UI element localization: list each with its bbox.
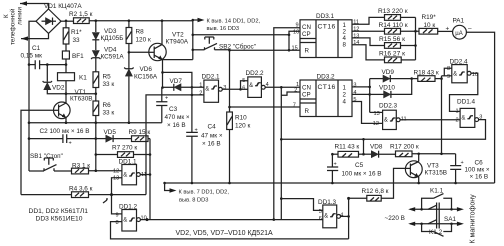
wire DD1.2 out row [141,219,323,221]
svg-text:R: R [305,108,310,115]
svg-text:~220 В: ~220 В [385,215,405,222]
svg-text:1: 1 [343,85,347,92]
arrow to telephone line a [20,1,27,5]
capacitor C3 [156,88,168,123]
svg-text:VD2, VD5, VD7–VD10 КД521А: VD2, VD5, VD7–VD10 КД521А [176,230,273,237]
svg-text:33 к: 33 к [103,81,115,88]
svg-text:телефонной: телефонной [9,8,17,45]
resistor R5 [93,72,99,88]
svg-text:120 к: 120 к [235,123,250,130]
resistor R9 [132,136,151,142]
svg-text:8: 8 [116,220,119,226]
wire DD3.1 out pin13 to R15 [352,38,385,46]
svg-text:K1.2: K1.2 [429,229,443,236]
svg-text:&: & [324,213,328,219]
resistor R2 [74,18,90,24]
svg-text:C6: C6 [475,160,484,167]
svg-text:3: 3 [479,114,482,120]
arrow to pin 14 DD1 DD2 pin 16 DD3 [193,19,199,21]
svg-text:11: 11 [353,20,359,26]
svg-text:&: & [249,83,253,89]
resistor R6 [93,101,99,171]
resistor R4 [21,192,146,198]
mains line 2 [410,223,461,225]
svg-text:КТ940А: КТ940А [166,39,189,46]
svg-text:10: 10 [472,72,478,78]
resistor R8 [126,21,149,53]
svg-text:2: 2 [199,90,202,96]
capacitor C5 [327,154,338,183]
gate DD1.4 [460,108,479,127]
svg-text:6: 6 [242,85,245,91]
svg-text:4: 4 [343,99,347,106]
gate DD2.4 [452,65,471,83]
svg-text:R14 110 к: R14 110 к [379,22,408,29]
svg-text:12: 12 [113,169,119,175]
svg-text:10 к: 10 к [424,22,436,29]
svg-text:R5: R5 [103,74,112,81]
svg-text:DD3 К561ИЕ10: DD3 К561ИЕ10 [36,216,83,223]
svg-text:10: 10 [141,215,147,221]
wire reset rail to DD3 [193,34,289,36]
svg-text:R8: R8 [136,29,145,36]
svg-text:R4 3,6 к: R4 3,6 к [69,186,93,193]
svg-text:3: 3 [353,82,356,88]
svg-text:VD3: VD3 [104,28,117,35]
svg-text:SB1 "Стоп": SB1 "Стоп" [30,153,63,160]
svg-text:4: 4 [353,90,356,96]
node VT1 emitter on rail [65,121,68,124]
wire CN9 column DD3.1 [274,28,300,220]
svg-text:&: & [453,72,457,78]
resistor R12 [349,195,382,201]
svg-text:VD4: VD4 [104,47,117,54]
svg-text:&: & [461,115,465,121]
wire emitter to SB2 column [163,59,193,61]
svg-text:C5: C5 [355,162,364,169]
svg-text:PA1: PA1 [453,18,465,25]
svg-text:R19*: R19* [422,14,437,21]
wire DD2.2 out column down [280,87,282,219]
wire bridge plus to R2 [61,20,74,22]
svg-text:12: 12 [373,121,379,127]
svg-text:K1.1: K1.1 [430,188,444,195]
diode VD3 [92,33,99,51]
zener diodes column VD9 VD10 [352,86,370,88]
svg-text:DD2.1: DD2.1 [202,74,221,81]
counter DD3.2 [300,80,352,117]
wire PA1 to right edge down [466,32,494,183]
wire DD2.4 inputs [444,68,452,76]
wire bridge minus down to SB1 [28,65,30,171]
svg-text:C1: C1 [32,45,41,52]
wire DD3.1 out pin12 to R14 [352,30,385,32]
svg-text:12: 12 [353,27,359,33]
diode VD9 [370,75,412,82]
svg-text:VD10: VD10 [379,85,395,92]
svg-text:R1*: R1* [71,29,82,36]
svg-text:DD2.3: DD2.3 [379,103,398,110]
wire R5 to R6 [95,88,97,102]
svg-text:6: 6 [319,216,322,222]
svg-text:120 к: 120 к [136,37,151,44]
svg-text:DD1.2: DD1.2 [119,203,138,210]
diode VD3 column [95,21,97,32]
svg-text:47 мк ×: 47 мк × [201,133,223,140]
svg-text:470 мк ×: 470 мк × [165,114,190,121]
node bridge plus / R1 top [65,20,68,23]
svg-text:11: 11 [141,172,147,178]
capacitor C2 [63,134,96,146]
svg-text:линии: линии [17,7,24,25]
relay contacts K1.2 [422,224,452,237]
svg-text:R6: R6 [103,102,112,109]
svg-text:R: R [305,48,310,55]
svg-text:DD2.2: DD2.2 [246,70,265,77]
resistor R17 [396,151,456,157]
counter DD3.1 [300,20,352,58]
wire VT2 emitter column [162,60,164,88]
svg-text:15: 15 [292,45,298,51]
svg-text:5: 5 [242,78,245,84]
diode VD10 [370,79,412,98]
svg-text:VD8: VD8 [370,144,383,151]
transistor VT2 [149,43,166,60]
wire common bottom rail [165,182,495,184]
svg-text:+: + [69,141,72,147]
svg-text:CT16: CT16 [318,24,336,31]
svg-text:R12 6,8 к: R12 6,8 к [362,188,389,195]
svg-text:100 мк × 16 В: 100 мк × 16 В [342,171,382,178]
node X [110,193,113,196]
capacitor C4 [186,128,198,184]
svg-text:КТ315В: КТ315В [425,170,448,177]
wire VT2 collector to rail [161,21,163,45]
wire R9 right down column [149,139,151,220]
wire DD3.2 pin5 to DD2.3 pin12 [352,102,383,124]
resistor R11 [332,151,371,157]
diode VD2 [43,65,66,94]
svg-text:CT16: CT16 [318,84,336,91]
wire DD2.3 out to DD1.4 pin2 [400,119,460,121]
svg-text:8: 8 [343,42,347,49]
transistor VT1 [54,94,71,123]
svg-text:выв. 16 DD3: выв. 16 DD3 [207,26,240,32]
svg-text:К магнитофону: К магнитофону [470,194,477,244]
svg-text:4: 4 [340,213,343,219]
svg-text:4: 4 [266,82,269,88]
wire DD2.3 pin13 [370,111,383,113]
svg-text:DD1.3: DD1.3 [318,199,337,206]
svg-text:13: 13 [113,176,119,182]
svg-text:R11 43 к: R11 43 к [335,144,360,151]
svg-text:2: 2 [294,88,297,94]
diode VD5 [96,135,132,142]
diode VD8 [371,151,395,158]
svg-text:&: & [123,218,127,224]
arrow to pin 7 DD1 DD2 pin 8 DD3 [165,183,170,191]
svg-text:КД105Б: КД105Б [101,35,124,42]
svg-text:× 16 В: × 16 В [202,141,221,148]
svg-text:VT3: VT3 [427,163,439,170]
wire VT1 base to left rail [21,110,54,194]
svg-text:10: 10 [293,30,299,36]
wire DD3.2 CP hook [281,92,300,95]
svg-text:R9 15 к: R9 15 к [129,129,151,136]
svg-text:R17 200 к: R17 200 к [390,144,419,151]
svg-text:DD1, DD2 К561ТЛ1: DD1, DD2 К561ТЛ1 [29,208,89,215]
gate DD1.3 [323,205,349,228]
svg-text:R15 56 к: R15 56 к [379,36,405,43]
arrow to telephone line b [21,36,28,40]
svg-text:+: + [165,96,168,102]
zener VD4 [91,51,100,72]
svg-text:K1: K1 [79,75,87,82]
svg-text:DD3.2: DD3.2 [317,74,336,81]
svg-text:CP: CP [302,91,311,98]
svg-text:13: 13 [353,33,359,39]
svg-text:VD5: VD5 [104,129,117,136]
svg-text:100 мк ×: 100 мк × [465,167,490,174]
gate DD1.2 [122,210,141,232]
resistor R16 [385,57,416,63]
resistor R13 [385,15,416,21]
svg-text:К выв. 14 DD1, DD2,: К выв. 14 DD1, DD2, [207,19,261,25]
mains line 1 [410,208,461,210]
svg-text:+: + [446,26,450,33]
svg-text:BF1: BF1 [72,53,84,60]
node VT1 collector / K1 bottom [65,92,68,95]
svg-text:8: 8 [447,66,450,72]
wire DD2.2 out to DD3.2 CN [265,86,300,88]
svg-text:–: – [468,25,472,32]
svg-text:R2 1,5 к: R2 1,5 к [69,11,93,18]
wire DD1.4 out down to long row [281,120,485,140]
wire telephone line a [20,4,49,10]
node C1 left [28,63,31,66]
svg-text:R10: R10 [235,115,247,122]
svg-text:× 16 В: × 16 В [167,122,186,129]
svg-text:C4: C4 [208,124,217,131]
svg-text:7: 7 [293,102,296,108]
gate DD1.1 [122,165,150,185]
svg-text:SB2 "Сброс": SB2 "Сброс" [219,43,256,51]
pushbutton SB2 [193,37,217,50]
wire SB2 reset column [192,20,194,60]
svg-text:VD2: VD2 [52,85,65,92]
wire VT3 base to R12 [381,168,405,198]
svg-text:&: & [205,87,209,93]
svg-text:&: & [384,118,388,124]
svg-text:R18 43 к: R18 43 к [414,70,439,77]
resistor R14 [385,28,420,34]
svg-text:DD3.1: DD3.1 [316,13,335,20]
svg-text:CP: CP [302,31,311,38]
resistor R3 [72,168,122,174]
wire collector to R5 R6 divider [66,93,96,95]
diode VD7 [163,84,204,91]
svg-text:VD1 КЦ407А: VD1 КЦ407А [44,3,82,10]
svg-text:0,15 мк: 0,15 мк [21,53,43,60]
node C1 right / K1 top [65,63,68,66]
svg-text:SA1: SA1 [444,216,457,223]
svg-text:9: 9 [116,213,119,219]
svg-text:1: 1 [456,109,459,115]
svg-text:33: 33 [73,37,81,44]
wire top supply rail [89,20,193,22]
svg-text:VD9: VD9 [382,69,395,76]
wire telephone line b [21,33,49,38]
capacitor C6 [450,154,464,183]
pushbutton SB1 [29,158,72,171]
gate DD2.2 [248,77,265,98]
wire SB2 right contact down [215,50,230,112]
wire DD1.2 pin9 [112,195,122,214]
wire DD1.2 pin8 to bottom loop [111,222,349,239]
resistor R19 [419,28,453,34]
svg-text:1: 1 [199,83,202,89]
svg-text:× 16 В: × 16 В [470,174,489,181]
svg-text:9: 9 [296,23,299,29]
svg-text:R16 27 к: R16 27 к [379,51,405,58]
svg-text:µA: µA [455,31,462,37]
svg-text:VD6: VD6 [140,66,153,73]
svg-text:5: 5 [319,209,322,215]
svg-text:VT2: VT2 [172,32,184,39]
svg-text:13: 13 [374,111,380,117]
svg-text:К выв. 7 DD1, DD2,: К выв. 7 DD1, DD2, [179,190,230,196]
svg-text:5: 5 [353,97,356,103]
wire node X up to DD2.1 pin2 [146,95,204,195]
svg-text:КС156А: КС156А [134,74,158,81]
svg-text:14: 14 [353,40,359,46]
resistor R18 [412,76,442,82]
svg-text:2: 2 [343,92,347,99]
wire DD2.4 out loop to DD1.4 pin1 [450,73,478,111]
wire DD3.1 out pin14 to R16 [352,45,385,60]
svg-text:DD2.4: DD2.4 [450,59,469,66]
svg-text:КТ630В: КТ630В [70,96,93,103]
capacitor C1 [29,60,66,69]
transistor VT3 [405,154,422,183]
resistor R10 [227,112,233,183]
svg-text:9: 9 [447,74,450,80]
wire DD1.1 pin13 to node X [112,178,122,195]
relay contacts K1.1 [422,194,452,209]
svg-text:&: & [123,173,127,179]
wire DD3.1 out pin11 to R13 [352,17,385,24]
svg-text:11: 11 [401,116,407,122]
svg-text:КС591А: КС591А [101,54,125,61]
resistor R15 [385,43,416,49]
svg-text:DD1.1: DD1.1 [119,159,138,166]
small mark near DD1.2 [103,199,108,203]
resistor R1 [63,21,69,51]
wire DD1.3 out up to R12 and down to loop [348,198,350,239]
svg-text:R3 1 к: R3 1 к [72,163,90,170]
wire summing column to R19 [415,17,417,60]
diode bridge VD1 [36,9,61,33]
wire branch to VD8 junction [363,139,365,154]
svg-text:2: 2 [456,117,459,123]
wire emitter branch to DD2.1 [163,72,192,132]
zener VD6 [124,51,133,123]
capacitor C2 row [29,138,63,140]
wire DD1.3 pin5 branch [281,199,323,211]
svg-text:C3: C3 [169,106,178,113]
svg-text:DD1.4: DD1.4 [457,99,476,106]
switch SA1 [428,203,439,229]
svg-text:R13 220 к: R13 220 к [378,8,408,15]
meter PA1 [453,25,467,39]
svg-text:3: 3 [223,85,226,91]
wire minus rail y122.7 [29,122,162,124]
svg-text:R7 270 к: R7 270 к [112,145,137,152]
wire R reset row to DD3 R inputs [230,49,300,51]
buzzer BF1 [62,51,69,65]
svg-text:C2 100 мк × 16 В: C2 100 мк × 16 В [40,128,90,135]
svg-text:VD7: VD7 [170,78,183,85]
gate DD2.3 [383,110,401,129]
gate DD2.1 [204,80,222,102]
svg-text:+: + [195,128,198,134]
wire bridge minus (left corner) down [29,21,36,64]
resistor R7 [96,152,150,158]
wire DD2.1 out to DD2.2 [222,88,240,90]
svg-text:выв. 8 DD3: выв. 8 DD3 [179,198,208,204]
svg-text:33 к: 33 к [103,110,115,117]
relay coil K1 [58,65,75,94]
